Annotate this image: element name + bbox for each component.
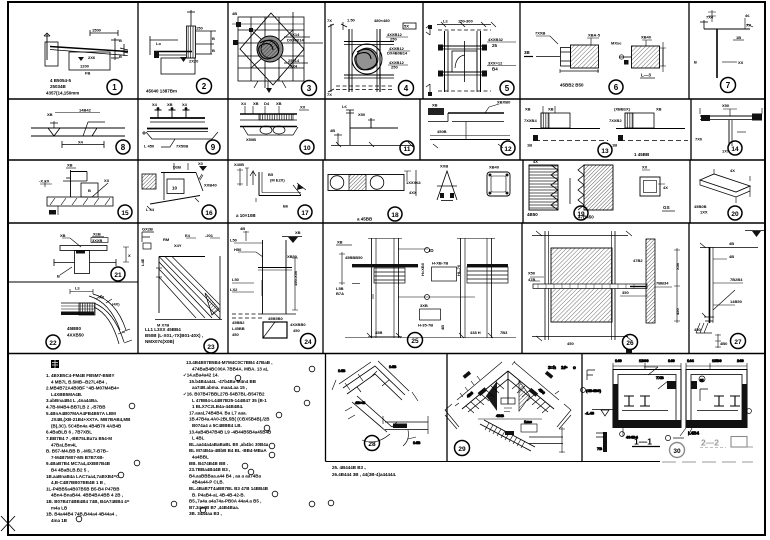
svg-text:1ms: 1ms <box>524 419 533 424</box>
svg-text:25. 4B444B B3 、: 25. 4B444B B3 、 <box>332 465 369 471</box>
svg-text:4ma 1B: 4ma 1B <box>51 518 68 523</box>
svg-text:10: 10 <box>303 145 311 152</box>
svg-text:10: 10 <box>172 186 178 191</box>
svg-text:4B: 4B <box>232 11 237 16</box>
svg-text:4≤: 4≤ <box>745 13 750 18</box>
svg-text:XX: XX <box>738 60 744 65</box>
svg-text:X50: X50 <box>722 103 730 108</box>
svg-text:1B00: 1B00 <box>639 358 649 363</box>
svg-text:JX4B,(XB-21B4+XX7A. MB7BAB4,MB: JX4B,(XB-21B4+XX7A. MB7BAB4,MB <box>51 417 131 422</box>
svg-text:438 H: 438 H <box>470 330 481 335</box>
svg-text:L50: L50 <box>232 277 240 282</box>
svg-text:L 4BL: L 4BL <box>192 436 205 441</box>
svg-text:144: 144 <box>687 358 694 363</box>
svg-text:4B×B: 4B×B <box>355 400 365 405</box>
svg-text:1 45BB: 1 45BB <box>634 152 650 157</box>
svg-text:25: 25 <box>492 43 498 48</box>
svg-text:XB40: XB40 <box>641 35 652 40</box>
svg-text:4B50: 4B50 <box>527 212 538 217</box>
svg-text:24: 24 <box>304 339 312 346</box>
svg-text:B: B <box>212 48 215 53</box>
svg-text:45040 1387Bm: 45040 1387Bm <box>146 89 177 94</box>
detail 26 wall panel <box>530 231 680 354</box>
svg-text:B7A: B7A <box>336 291 344 296</box>
svg-text:13.4B4B07B5B4-M7M4C0C7BB4 47Ba: 13.4B4B07B5B4-M7M4C0C7BB4 47BaB , <box>186 360 273 365</box>
svg-text:4357(14,150mm: 4357(14,150mm <box>46 91 79 96</box>
svg-text:X4Y: X4Y <box>174 243 182 248</box>
svg-text:D4: D4 <box>264 101 270 106</box>
detail 24 column base <box>232 231 302 338</box>
detail number circles <box>46 78 746 456</box>
svg-text:a 10×10B: a 10×10B <box>236 213 256 218</box>
svg-text:LX2: LX2 <box>230 287 238 292</box>
svg-text:B: B <box>119 54 122 59</box>
svg-text:4: 4 <box>404 84 409 93</box>
svg-text:3XXB: 3XXB <box>92 238 103 243</box>
detail 23 stair flight LL1 <box>142 232 222 320</box>
svg-text:L 450: L 450 <box>144 144 155 149</box>
svg-text:XB: XB <box>253 101 259 106</box>
svg-text:7XXB: 7XXB <box>535 31 546 36</box>
detail 9 composite slab with studs <box>142 107 218 147</box>
svg-text:a 45BB: a 45BB <box>357 217 373 222</box>
svg-text:XBA-5: XBA-5 <box>588 33 601 38</box>
svg-text:1#•: 1#• <box>561 365 568 370</box>
svg-text:aa74B.abma. maa4.aa 15 ,: aa74B.abma. maa4.aa 15 , <box>192 385 247 390</box>
svg-text:7XXB2: 7XXB2 <box>609 118 622 123</box>
svg-text:H-35-7B: H-35-7B <box>418 323 433 328</box>
svg-text:47B: 47B <box>528 277 535 282</box>
svg-text:H-XB-7B: H-XB-7B <box>432 261 448 266</box>
detail 25 beam column joints <box>336 238 516 338</box>
svg-text:X4: X4 <box>152 102 158 107</box>
bottom notes under stair cell <box>332 465 396 477</box>
grid line row3/row4 <box>8 222 765 224</box>
svg-text:XB: XB <box>656 107 662 112</box>
row4 vertical dividers <box>138 223 689 354</box>
svg-text:4B: 4B <box>240 226 245 231</box>
svg-text:H50: H50 <box>234 247 242 252</box>
detail 16 ramp detail <box>142 163 207 210</box>
svg-text:X50: X50 <box>528 271 536 276</box>
svg-text:XB: XB <box>525 107 531 112</box>
row2 vertical dividers <box>138 99 691 160</box>
svg-text:GX2B: GX2B <box>142 227 153 232</box>
detail 13 two corner details <box>530 106 688 141</box>
svg-text:25: 25 <box>411 338 419 345</box>
svg-text:X40B: X40B <box>234 162 244 167</box>
svg-text:1L-P4BB5a4B07B5B B5-B4 P47BB: 1L-P4BB5a4B07B5B B5-B4 P47BB <box>46 486 120 491</box>
svg-text:7.BB7B4 7 ,-BB75LBa7a B54-M: 7.BB7B4 7 ,-BB75LBa7a B54-M <box>46 436 112 441</box>
svg-text:4BB: 4BB <box>496 413 504 418</box>
svg-text:1B.aaBnaB4a LAC7aa4,7aBXB4=C: 1B.aaBnaB4a LAC7aa4,7aBXB4=C <box>46 474 120 479</box>
svg-text:8: 8 <box>121 143 126 152</box>
svg-text:23.7BBa4B44B B3 ,: 23.7BBa4B44B B3 , <box>189 467 230 472</box>
svg-text:4,B-C4B7BB07BB4B 1 B ,: 4,B-C4B7BB07BB4B 1 B , <box>51 480 106 485</box>
grid line row1/row2 <box>8 98 765 100</box>
svg-text:B50B (L-X01,-7X(B01-40X) ,: B50B (L-X01,-7X(B01-40X) , <box>145 333 203 338</box>
svg-text:3B: 3B <box>524 50 531 55</box>
bottom stair cell dividers <box>326 354 583 462</box>
svg-text:4XXBB0: 4XXBB0 <box>290 322 306 327</box>
svg-text:B7.34a4B B7 ,44B4Baa.: B7.34a4B B7 ,44B4Baa. <box>189 505 239 510</box>
svg-text:X4: X4 <box>78 140 84 145</box>
svg-text:18: 18 <box>391 212 399 219</box>
svg-text:✓14.aBa4a42 14.: ✓14.aBa4a42 14. <box>183 373 219 378</box>
svg-text:L50: L50 <box>230 238 238 243</box>
svg-text:XB: XB <box>432 103 438 108</box>
svg-text:7: 7 <box>726 81 731 90</box>
svg-text:7X14: 7X14 <box>290 32 300 37</box>
svg-text:7X4: 7X4 <box>706 15 714 20</box>
svg-text:15.b4B4a44L -47b4Ba-M4n4 BB: 15.b4B4a44L -47b4Ba-M4n4 BB <box>189 379 257 384</box>
svg-text:L≤: L≤ <box>443 19 448 24</box>
svg-text:45B5B0: 45B5B0 <box>268 316 283 321</box>
row1 vertical dividers <box>138 2 689 99</box>
svg-text:XB: XB <box>337 240 343 245</box>
svg-text:22: 22 <box>49 340 57 347</box>
svg-text:45BB0: 45BB0 <box>67 326 82 331</box>
svg-text:1B: 1B <box>736 35 741 40</box>
svg-text:250: 250 <box>391 65 398 70</box>
svg-text:7X: 7X <box>327 18 332 23</box>
svg-text:DX40014: DX40014 <box>287 38 304 43</box>
svg-text:L4B4: L4B4 <box>688 431 700 436</box>
svg-text:2.MB4B72A4B0BF “4B-M07M4B4=: 2.MB4B72A4B0BF “4B-M07M4B4= <box>46 386 120 391</box>
svg-text:o: o <box>573 365 576 370</box>
svg-text:25: 25 <box>700 379 704 383</box>
stair cells bottom line <box>326 461 661 463</box>
svg-text:XX: XX <box>642 165 648 170</box>
svg-text:480×480: 480×480 <box>374 18 390 23</box>
svg-text:4B: 4B <box>330 128 335 133</box>
svg-text:1B.47B4a.4A0-2BL5B( (CBX5B4B),: 1B.47B4a.4A0-2BL5B( (CBX5B4B),/2B <box>189 417 270 422</box>
svg-text:1200: 1200 <box>80 64 90 69</box>
svg-text:29: 29 <box>458 446 466 453</box>
detail 11 angle support <box>331 110 413 147</box>
svg-text:9.4BaB7B4 MC7a4,4XBB7B4B: 9.4BaB7B4 MC7a4,4XBB7B4B <box>46 461 111 466</box>
svg-text:45B0B: 45B0B <box>694 204 707 209</box>
section 2-2 box <box>665 358 751 441</box>
svg-text:250: 250 <box>390 37 397 42</box>
svg-text:XB50: XB50 <box>287 254 298 259</box>
svg-text:4Bn4-BnaB44. 4BB4BA4BB 4 2B ,: 4Bn4-BnaB44. 4BB4BA4BB 4 2B , <box>51 493 123 498</box>
svg-text:X50: X50 <box>675 262 680 270</box>
svg-text:L 47BB4-L44B7B25-144B47 35 (B-: L 47BB4-L44B7B25-144B47 35 (B-1 <box>192 398 267 403</box>
svg-text:NMX07≤(X0B): NMX07≤(X0B) <box>145 339 175 344</box>
detail 7 corner tee <box>700 10 753 78</box>
svg-text:L 44: L 44 <box>146 207 155 212</box>
svg-text:(XBB≤X): (XBB≤X) <box>614 107 631 112</box>
svg-text:B. P4aB4-aL 4B-4B-42-B.: B. P4aB4-aL 4B-4B-42-B. <box>192 492 245 497</box>
detail 4 column section <box>328 22 416 92</box>
svg-text:4XXB32: 4XXB32 <box>488 37 504 42</box>
svg-text:4a4BBL: 4a4BBL <box>192 455 209 460</box>
svg-text:1. 4BXB5C4-FM4B FB5M7-B5BY: 1. 4BXB5C4-FM4B FB5M7-B5BY <box>46 373 115 378</box>
svg-text:15B0: 15B0 <box>712 358 722 363</box>
svg-text:19: 19 <box>577 211 585 218</box>
svg-text:X: X <box>128 253 131 258</box>
grey title box <box>731 437 747 448</box>
svg-text:L—3: L—3 <box>641 73 651 78</box>
svg-text:1B. B4a44B4 74B,B44a4 4B44a4 ,: 1B. B4a44B4 74B,B44a4 4B44a4 , <box>46 512 117 517</box>
svg-text:1XX: 1XX <box>700 210 708 215</box>
svg-text:XB: XB <box>276 101 282 106</box>
svg-text:21: 21 <box>114 272 122 279</box>
svg-text:XBXB0: XBXB0 <box>497 100 511 105</box>
svg-text:3.abBna4B4 L ,4na44Ba.: 3.abBna4B4 L ,4na44Ba. <box>46 398 98 403</box>
svg-text:17.aaaL74B4B4. Ba L7 aaa.: 17.aaaL74B4B4. Ba L7 aaa. <box>189 410 247 415</box>
svg-text:X4: X4 <box>182 102 188 107</box>
svg-text:2: 2 <box>202 82 207 91</box>
svg-text:23: 23 <box>207 344 215 351</box>
svg-text:4XX: 4XX <box>409 190 417 195</box>
svg-text:FB: FB <box>85 71 90 76</box>
detail 1 eave slab <box>44 30 128 70</box>
svg-text:ID: ID <box>429 248 434 253</box>
svg-text:RM: RM <box>163 237 170 242</box>
svg-text:27: 27 <box>734 339 742 346</box>
svg-text:30: 30 <box>673 448 681 455</box>
svg-text:X≤B: X≤B <box>93 232 101 237</box>
svg-text:45BB2: 45BB2 <box>232 320 245 325</box>
svg-text:XXB40: XXB40 <box>204 183 217 188</box>
detail 29 corner stair plan <box>445 361 576 453</box>
svg-text:(B),3C). 5C4Bn4a 4B4B70 4AB4B: (B),3C). 5C4Bn4a 4B4B70 4AB4B <box>51 423 122 428</box>
section 1-1 box <box>581 358 682 452</box>
grid line row2/row3 <box>8 159 765 161</box>
detail 3 waffle slab plan <box>232 12 323 93</box>
svg-text:X50: X50 <box>358 112 366 117</box>
svg-text:3XB: 3XB <box>420 303 428 308</box>
detail 8 weld seam strip <box>31 113 125 149</box>
svg-text:1—1: 1—1 <box>634 437 652 447</box>
detail 19 stair hatches <box>529 165 665 210</box>
svg-text:1B: 1B <box>527 143 532 148</box>
svg-text:17: 17 <box>301 210 309 217</box>
svg-text:450: 450 <box>675 308 680 315</box>
svg-text:D≤B: D≤B <box>173 165 181 170</box>
svg-text:4B0: 4B0 <box>465 390 474 399</box>
detail 28 corner beam chevron <box>332 361 428 446</box>
svg-text:(4B4B0): (4B4B0) <box>586 388 602 393</box>
svg-text:-1.40: -1.40 <box>585 411 595 416</box>
svg-text:45BB2 B50: 45BB2 B50 <box>560 83 584 88</box>
svg-text:6: 6 <box>614 83 619 92</box>
notes title <box>51 360 59 368</box>
svg-text:X4: X4 <box>241 101 247 106</box>
svg-text:240: 240 <box>737 358 744 363</box>
svg-text:13.4aB4B47B4B L9 -4B44B5B4a45B: 13.4aB4B47B4B L9 -4B44B5B4a45B4B <box>189 429 272 434</box>
svg-text:B5: B5 <box>268 172 274 177</box>
svg-text:15: 15 <box>121 210 129 217</box>
svg-text:B4: B4 <box>492 67 498 72</box>
svg-text:1XXX≤4: 1XXX≤4 <box>406 180 421 185</box>
svg-text:3XX=12: 3XX=12 <box>488 61 503 66</box>
detail 27 parapet section <box>696 231 765 349</box>
svg-text:2X6: 2X6 <box>88 55 96 60</box>
notes column 1 <box>46 373 131 523</box>
svg-text:XXB: XXB <box>440 164 448 169</box>
svg-text:20: 20 <box>731 211 739 218</box>
grid line row4/bottom <box>8 353 765 355</box>
detail 21 tee beam <box>54 237 129 275</box>
detail 12 step profile <box>428 104 510 148</box>
detail 17 corner angle <box>237 168 306 202</box>
svg-text:4B: 4B <box>729 254 734 259</box>
svg-text:L4XBB5MA4B.: L4XBB5MA4B. <box>51 392 82 397</box>
svg-text:-X.XX: -X.XX <box>39 179 50 184</box>
svg-text:450: 450 <box>293 328 300 333</box>
svg-text:(M E2X): (M E2X) <box>270 178 285 183</box>
svg-text:1B. B07B474BB4B4 74B, B4A74BB4: 1B. B07B474BB4B4 74B, B4A74BB4 4= <box>46 499 130 504</box>
svg-text:7X: 7X <box>327 92 332 97</box>
svg-text:450: 450 <box>232 332 239 337</box>
svg-text:B: B <box>694 60 697 65</box>
svg-text:350: 350 <box>622 290 629 295</box>
svg-text:L4E: L4E <box>140 258 145 266</box>
svg-text:14: 14 <box>731 146 739 153</box>
svg-text:4 MB7L B.5MB--B27L4B4 ,: 4 MB7L B.5MB--B27L4B4 , <box>51 379 107 384</box>
svg-text:L≤: L≤ <box>342 104 347 109</box>
svg-text:45B: 45B <box>375 330 382 335</box>
svg-text:B: B <box>212 36 215 41</box>
svg-text:14B: 14B <box>389 364 396 369</box>
svg-text:B074a4 a 5C4BBB4 LB.: B074a4 a 5C4BBB4 LB. <box>192 423 242 428</box>
svg-text:14B: 14B <box>413 440 420 445</box>
detail 5 frame beam <box>426 22 516 96</box>
svg-text:XB40: XB40 <box>489 165 500 170</box>
svg-text:XB: XB <box>295 230 301 235</box>
svg-text:47B2: 47B2 <box>633 258 643 263</box>
svg-text:2—2: 2—2 <box>701 438 719 448</box>
X mark on left border <box>1 516 15 531</box>
svg-text:-201: -201 <box>205 233 214 238</box>
svg-text:B4 4BaBLB.B2 5 ,: B4 4BaBLB.B2 5 , <box>51 468 89 473</box>
svg-text:XB: XB <box>60 233 66 238</box>
svg-text:4B: 4B <box>440 325 445 330</box>
svg-text:150-X50: 150-X50 <box>293 270 298 286</box>
detail 14 tee profile <box>700 108 762 146</box>
svg-text:16: 16 <box>205 210 213 217</box>
svg-text:H=XB0: H=XB0 <box>420 262 425 276</box>
svg-text:4X: 4X <box>663 185 668 190</box>
svg-text:26.4B444 3B , 44(3B-4)a44444.: 26.4B444 3B , 44(3B-4)a44444. <box>332 472 396 477</box>
svg-text:11: 11 <box>404 146 411 153</box>
svg-text:B: B <box>88 188 91 193</box>
svg-text:7-M4B7M07-M5 B7B7XB-: 7-M4B7M07-M5 B7B7XB- <box>51 455 105 460</box>
svg-text:B6: B6 <box>283 204 289 209</box>
detail 10 slab with hatch strip <box>240 106 309 135</box>
svg-text:150: 150 <box>196 26 203 31</box>
svg-text:14B: 14B <box>338 368 345 373</box>
svg-text:450B: 450B <box>437 129 447 134</box>
svg-text:4.7B-M4B4-BB7LB 2 ,-B7BB: 4.7B-M4B4-BB7LB 2 ,-B7BB <box>46 405 106 410</box>
svg-text:7X4: 7X4 <box>290 64 298 69</box>
svg-text:4B0: 4B0 <box>720 341 728 346</box>
detail 22 curved ramp <box>61 289 132 344</box>
svg-text:2X20: 2X20 <box>189 59 199 64</box>
svg-text:4B: 4B <box>729 241 734 246</box>
svg-text:26: 26 <box>626 340 634 347</box>
svg-text:7B2B4: 7B2B4 <box>730 277 743 282</box>
svg-text:BL.aa44a4aBaBaBL B0 ,ab4bc 30B: BL.aa44a4aBaBaBL B0 ,ab4bc 30B4a <box>189 442 269 447</box>
notes column 2 <box>183 360 273 516</box>
svg-text:L≤: L≤ <box>75 286 80 291</box>
svg-text:B: B <box>57 274 60 279</box>
svg-text:4B4a44-P CLB.: 4B4a44-P CLB. <box>192 480 224 485</box>
detail 20 bent plate <box>700 169 750 203</box>
svg-text:7XB: 7XB <box>656 375 664 380</box>
detail 2 corner wall <box>150 10 216 74</box>
svg-text:4XXB50: 4XXB50 <box>67 333 84 338</box>
svg-text:12: 12 <box>504 146 512 153</box>
svg-text:BL M74B4a-4BbB B4 BL -BB4-MBaA: BL M74B4a-4BbB B4 BL -BB4-MBaA <box>189 448 267 453</box>
note check circles <box>76 366 334 522</box>
svg-text:25034B: 25034B <box>50 84 67 89</box>
svg-text:14B42: 14B42 <box>79 108 92 113</box>
svg-text:1500: 1500 <box>92 28 102 33</box>
svg-text:4X: 4X <box>730 168 735 173</box>
svg-text:BB. B474B4B BB .: BB. B474B4B BB . <box>189 461 228 466</box>
svg-text:47BaLBm4L: 47BaLBm4L <box>51 442 77 447</box>
row4 cell1 sub divider <box>8 281 138 283</box>
svg-text:E4: E4 <box>185 233 191 238</box>
svg-text:1: 1 <box>112 83 117 92</box>
svg-text:XB: XB <box>67 163 73 168</box>
svg-text:B5.,7a4a a4a74a-PB0A 44a4.a B5: B5.,7a4a a4a74a-PB0A 44a4.a B5 , <box>189 499 261 504</box>
svg-text:B: B <box>119 38 122 43</box>
svg-text:13: 13 <box>601 148 609 155</box>
svg-text:474BaB4BC00A 7BB4A. MBA. 13 aL: 474BaB4BC00A 7BB4A. MBA. 13 aL <box>192 366 269 371</box>
svg-text:XX: XX <box>300 105 306 110</box>
svg-text:GS: GS <box>663 205 670 210</box>
svg-text:450: 450 <box>567 341 574 346</box>
svg-text:(4X): (4X) <box>112 302 120 307</box>
svg-text:25014: 25014 <box>288 58 300 63</box>
svg-text:150-300: 150-300 <box>458 19 473 24</box>
svg-text:7X50B: 7X50B <box>176 144 188 149</box>
svg-text:1.50: 1.50 <box>347 18 356 23</box>
svg-text:14B50: 14B50 <box>730 299 743 304</box>
svg-text:4X: 4X <box>533 159 538 164</box>
svg-text:140: 140 <box>668 358 675 363</box>
svg-text:Lo: Lo <box>156 41 161 46</box>
svg-text:5.4BnA4B07MAA4FB4B57A LBM: 5.4BnA4B07MAA4FB4B57A LBM <box>46 411 116 416</box>
detail 18 hollow slab + two small <box>328 170 510 201</box>
svg-text:DX4B0B14: DX4B0B14 <box>387 51 408 56</box>
svg-text:3: 3 <box>307 84 312 93</box>
detail 6 two hatched pads <box>524 36 666 73</box>
svg-text:B4.aaBBBaa.a44 B4 , aa a aa74B: B4.aaBBBaa.a44 B4 , aa a aa74Ba <box>189 473 262 478</box>
svg-text:B. B57-M4.BB B ,-M5L7-B7B–: B. B57-M4.BB B ,-M5L7-B7B– <box>46 449 109 454</box>
svg-text:HL-70: HL-70 <box>456 264 461 276</box>
svg-text:9: 9 <box>211 143 216 152</box>
row3 vertical dividers <box>138 160 690 223</box>
svg-text:XX: XX <box>746 23 752 28</box>
svg-text:7B: 7B <box>597 446 602 451</box>
svg-text:XX: XX <box>104 178 110 183</box>
svg-text:LL1 L3XX 45BB4: LL1 L3XX 45BB4 <box>145 327 181 332</box>
svg-text:BL.4BaB7T4aBB7BL B3 47B 14BB4B: BL.4BaB7T4aBB7BL B3 47B 14BB4B <box>189 486 269 491</box>
grey circle 30 <box>670 443 685 458</box>
svg-text:4 B5054-5: 4 B5054-5 <box>50 78 72 83</box>
svg-text:1B: 1B <box>612 143 617 148</box>
svg-text:m4a LB: m4a LB <box>51 505 68 510</box>
svg-text:X50B: X50B <box>246 137 256 142</box>
svg-text:6.4BaBLB 6 , 7B7XBL: 6.4BaBLB 6 , 7B7XBL <box>46 430 92 435</box>
svg-text:140: 140 <box>615 358 622 363</box>
